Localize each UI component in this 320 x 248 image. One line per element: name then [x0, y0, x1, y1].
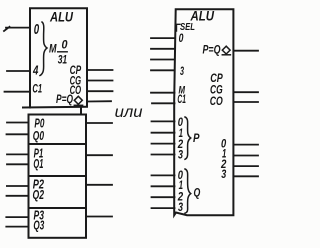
ALU U2 outline [174, 9, 233, 215]
svg-text:C1: C1 [177, 94, 186, 106]
wire U1 output F1 [86, 154, 112, 156]
symbol U1 diamond underline [74, 104, 82, 106]
svg-text:CP: CP [210, 73, 223, 85]
wire U2 select input 2 [151, 59, 175, 61]
wire U2 output CG [233, 91, 258, 93]
wire U1 input P1 [7, 153, 29, 155]
wire U1 output CO [87, 90, 113, 92]
svg-text:M: M [49, 44, 57, 56]
svg-text:Q3: Q3 [33, 218, 44, 233]
svg-text:0: 0 [179, 33, 184, 45]
wire U2 output P=Q [233, 50, 258, 52]
svg-text:0: 0 [62, 38, 68, 52]
wire U1 output CP [87, 69, 113, 71]
svg-text:или: или [115, 104, 143, 121]
symbol U2 diamond underline [222, 54, 230, 56]
svg-text:CO: CO [210, 96, 223, 108]
wire U2 output F1 [233, 155, 258, 157]
wire U1 input P0 [7, 122, 29, 124]
brace U2 P operand group [185, 117, 191, 159]
wire U1 input C1 [5, 91, 31, 93]
wire U2 output F0 [233, 144, 258, 146]
svg-text:3: 3 [178, 150, 183, 162]
svg-text:3: 3 [221, 169, 226, 181]
wire U2 input Q2 [152, 196, 175, 198]
wire U1 input 4 [7, 70, 30, 72]
svg-text:CG: CG [210, 84, 223, 96]
svg-text:P=Q: P=Q [56, 94, 73, 106]
symbol U1 open-collector diamond at P=Q output [74, 96, 82, 104]
wire U1 output F2 [86, 184, 112, 186]
svg-text:4: 4 [32, 63, 39, 78]
svg-text:ALU: ALU [49, 8, 74, 24]
wire U2 select input 0 [151, 37, 175, 39]
svg-text:SEL: SEL [180, 21, 195, 33]
svg-text:Q2: Q2 [33, 187, 45, 202]
wire U2 select input 1 [151, 48, 175, 50]
svg-text:3: 3 [178, 202, 183, 214]
svg-text:Q: Q [194, 185, 201, 199]
wire U2 output F2 [233, 165, 258, 167]
svg-text:0: 0 [34, 22, 39, 38]
wire U2 input P1 [152, 132, 175, 134]
ALU U1 array block outline [29, 115, 87, 238]
wire U1 output F0 [86, 122, 112, 124]
ALU U1 control block bottom edge with left overhang [23, 106, 87, 109]
wire U2 input C1 [152, 102, 175, 104]
wire U1 input Q0 [7, 133, 29, 135]
svg-text:3: 3 [180, 66, 184, 78]
fraction bar U1 M 0/31 [58, 51, 67, 53]
ALU U1 array divider 1 [29, 143, 87, 145]
wire U1 input Q2 [7, 195, 29, 197]
wire U2 input M [151, 92, 175, 94]
wire U1 mode input with tick [4, 27, 30, 31]
wire U1 output F3 [86, 216, 112, 218]
ALU U1 array divider 2 [29, 175, 87, 177]
svg-text:C1: C1 [32, 81, 42, 95]
wire U1 input P3 [6, 216, 28, 218]
svg-text:P=Q: P=Q [203, 45, 221, 57]
wire U2 input P0 [152, 120, 175, 122]
svg-text:1: 1 [179, 180, 183, 192]
ALU U1 array divider 3 [29, 207, 87, 209]
ALU U1 control block outline [30, 8, 87, 107]
svg-text:P: P [193, 131, 200, 145]
svg-text:Q0: Q0 [33, 128, 45, 143]
wire U2 input Q1 [152, 185, 175, 187]
wire U1 input P2 [7, 185, 29, 187]
wire U2 select input 3 [151, 69, 175, 71]
wire U2 input P3 [152, 154, 175, 156]
bracket U2 SEL dependency notation [177, 24, 181, 31]
wire U1 output P=Q [87, 100, 111, 102]
brace U2 Q operand group [185, 169, 191, 213]
wire U2 input Q0 [152, 174, 175, 176]
ALU U1 connector stub between blocks [80, 108, 82, 115]
brace U1 mode select group 0..4 [40, 22, 47, 76]
wire U2 output CO [233, 101, 258, 103]
wire U2 input P2 [152, 143, 175, 145]
svg-text:Q1: Q1 [33, 156, 43, 171]
symbol U2 open-collector diamond at P=Q output [222, 46, 230, 54]
wire U1 output CG [87, 80, 113, 82]
wire U2 output F3 [233, 175, 258, 177]
svg-text:31: 31 [58, 52, 68, 66]
wire U1 input Q3 [6, 226, 28, 228]
wire U1 input Q1 [7, 163, 29, 165]
wire U2 input Q3 [152, 207, 175, 209]
